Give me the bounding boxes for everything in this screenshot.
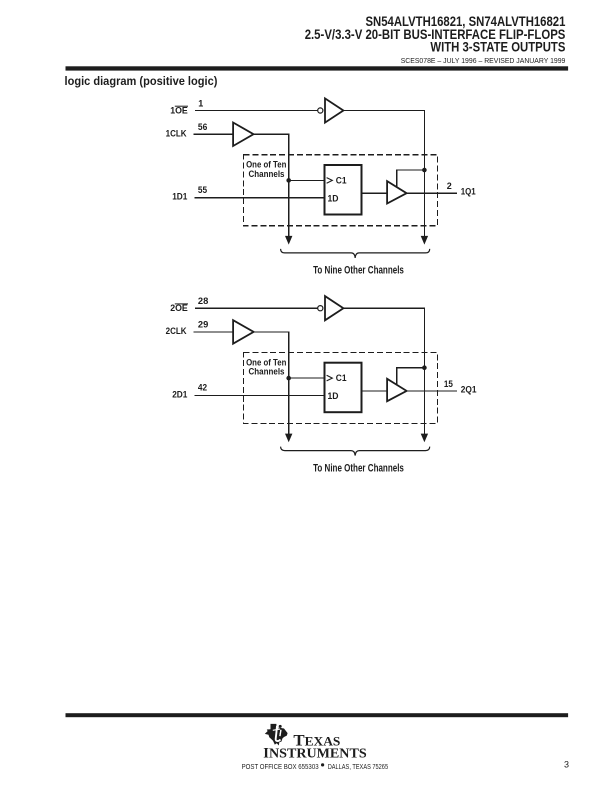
svg-text:2: 2 (447, 181, 452, 191)
svg-text:INSTRUMENTS: INSTRUMENTS (263, 746, 367, 762)
svg-text:2D1: 2D1 (172, 389, 187, 399)
svg-text:3: 3 (564, 760, 569, 770)
svg-text:WITH 3-STATE OUTPUTS: WITH 3-STATE OUTPUTS (430, 38, 565, 54)
svg-text:DALLAS, TEXAS 75265: DALLAS, TEXAS 75265 (328, 762, 388, 771)
svg-text:28: 28 (198, 296, 208, 306)
svg-text:1D1: 1D1 (172, 192, 187, 202)
svg-text:29: 29 (198, 320, 208, 330)
svg-text:2CLK: 2CLK (166, 326, 187, 336)
svg-text:1: 1 (198, 98, 203, 108)
svg-text:1Q1: 1Q1 (461, 187, 476, 197)
svg-text:42: 42 (198, 383, 207, 393)
svg-text:SCES078E – JULY 1996 – REVISED: SCES078E – JULY 1996 – REVISED JANUARY 1… (401, 56, 566, 65)
svg-text:2OE: 2OE (170, 303, 188, 313)
svg-text:56: 56 (198, 122, 207, 132)
svg-text:logic diagram (positive logic): logic diagram (positive logic) (65, 74, 218, 88)
svg-text:2Q1: 2Q1 (461, 384, 477, 394)
svg-text:55: 55 (198, 185, 207, 195)
svg-text:1OE: 1OE (170, 105, 188, 115)
svg-text:1CLK: 1CLK (166, 128, 187, 138)
svg-text:POST OFFICE BOX 655303: POST OFFICE BOX 655303 (242, 762, 319, 771)
svg-text:15: 15 (444, 379, 453, 389)
